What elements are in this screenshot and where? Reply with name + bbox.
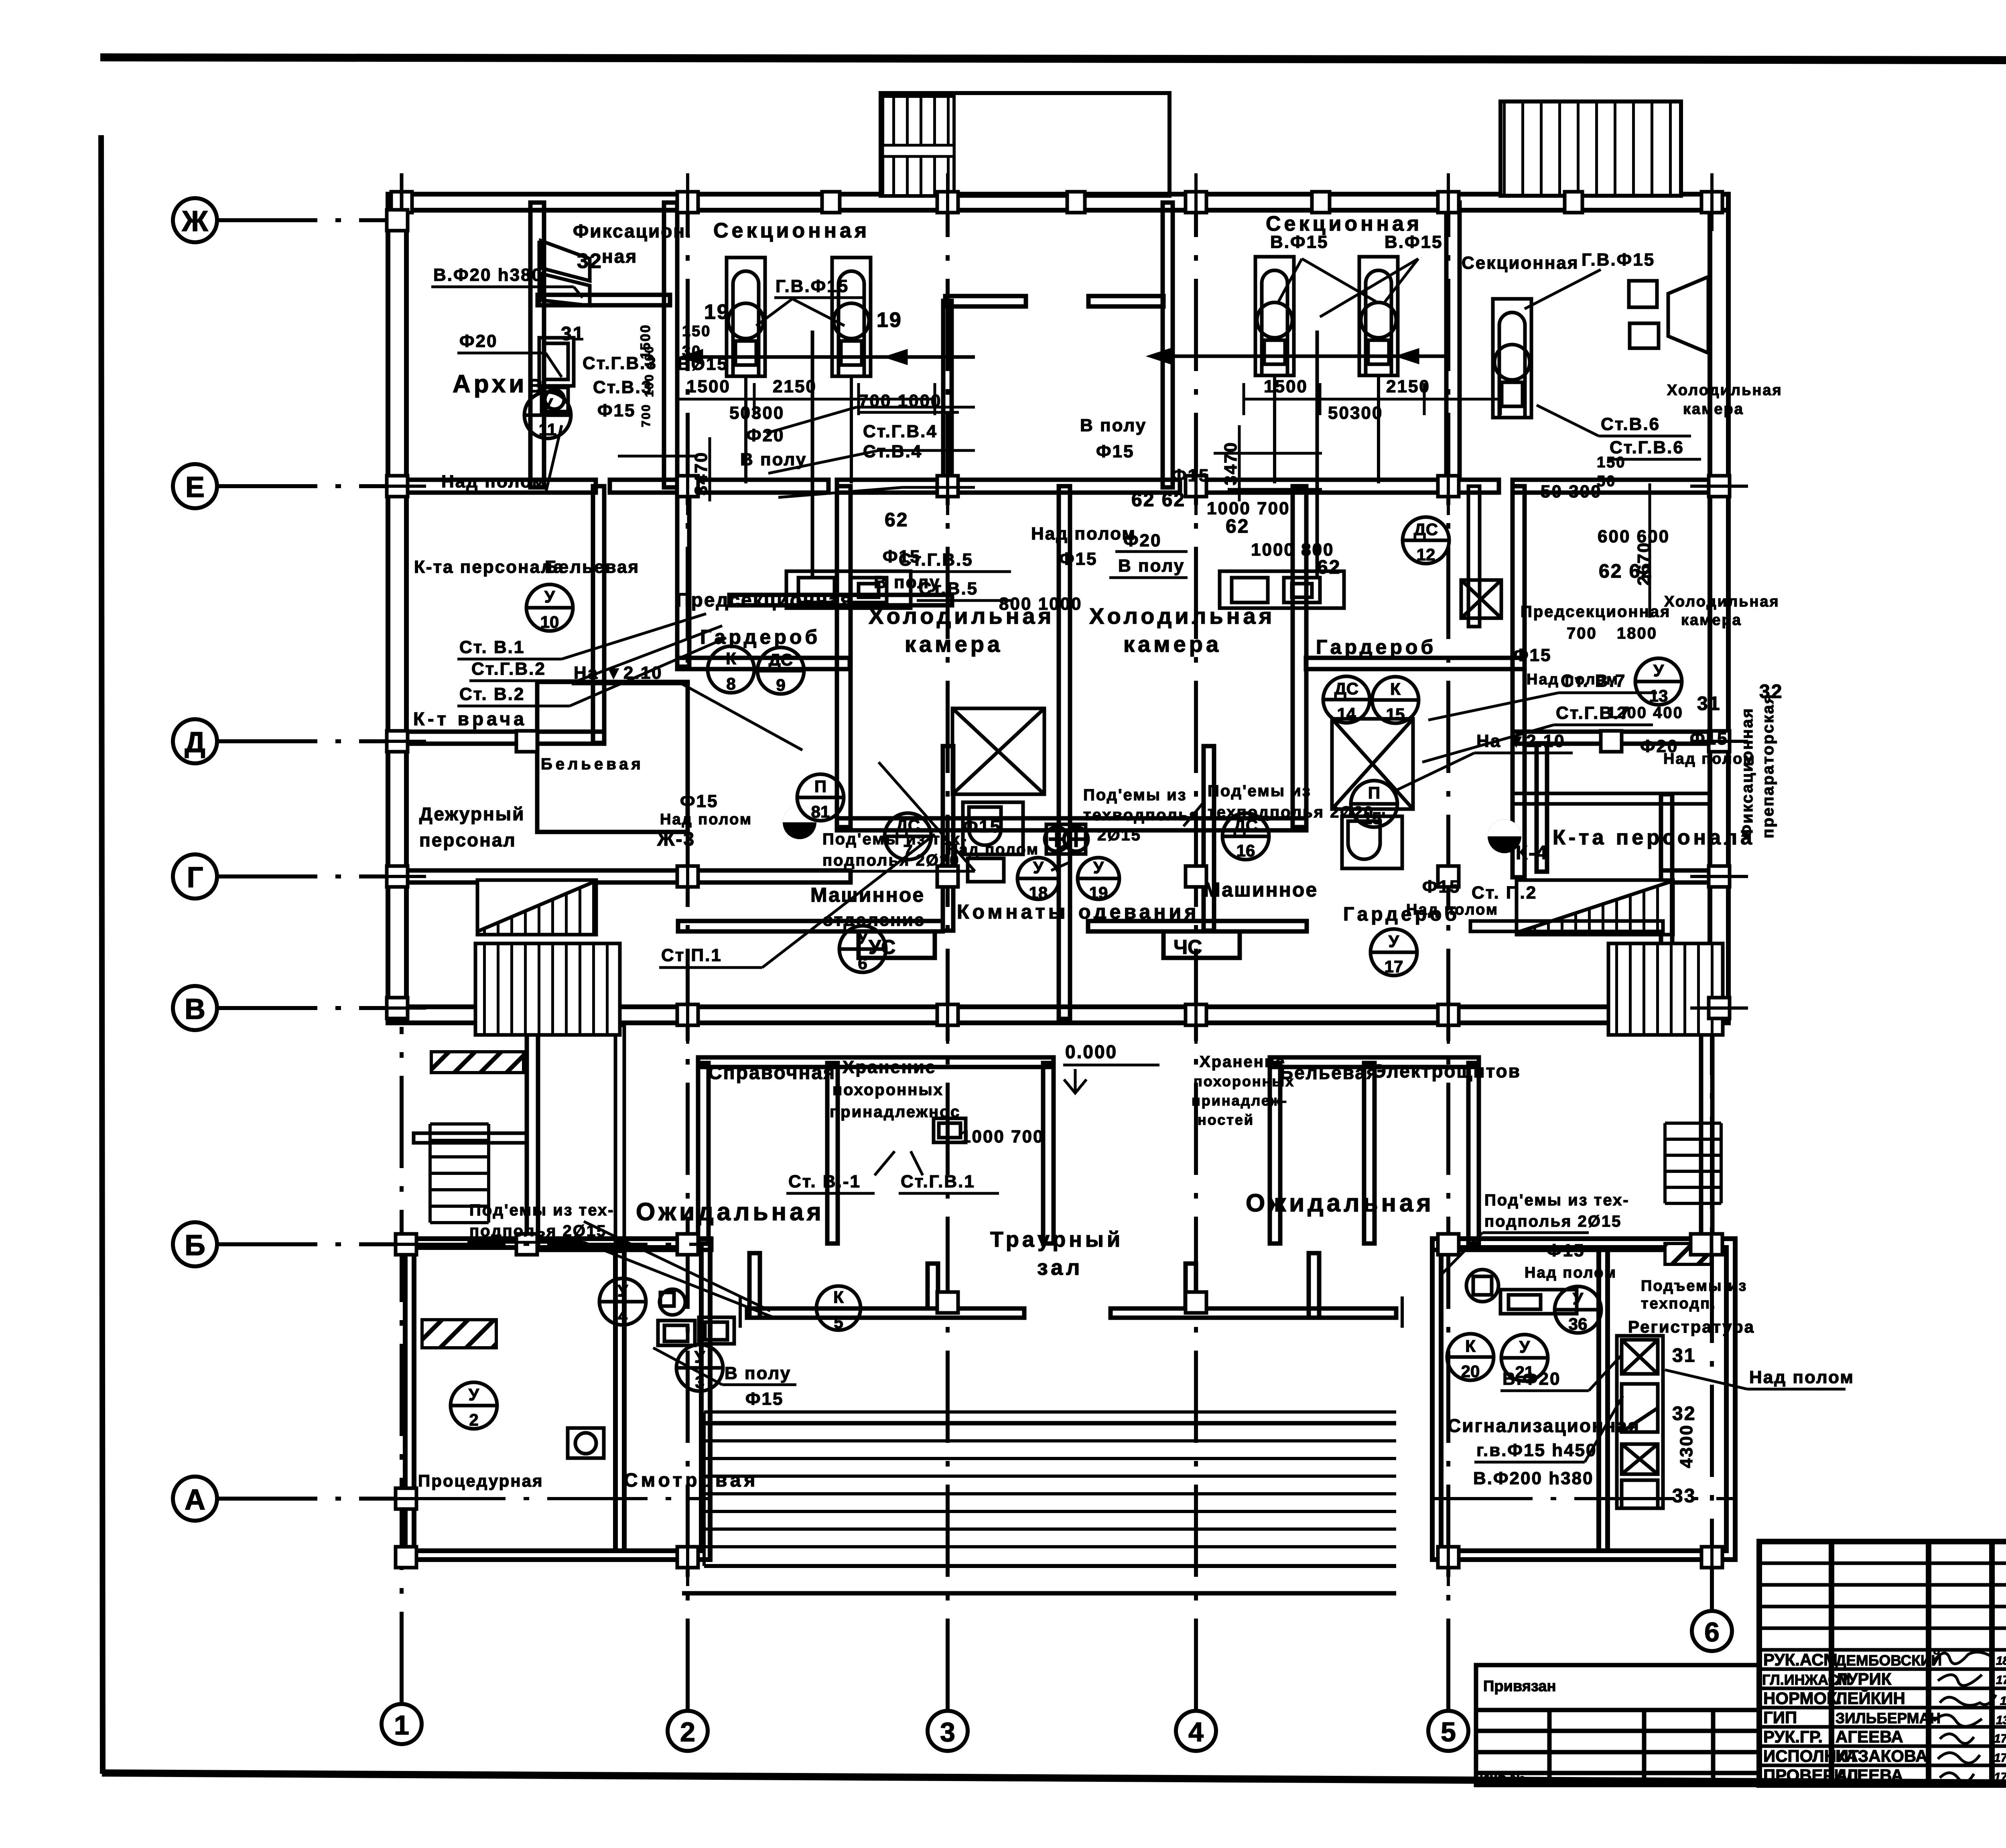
svg-text:К-та персонала: К-та персонала: [1553, 826, 1755, 849]
section table T5: [1493, 299, 1531, 418]
wall: axis Д row left: [399, 732, 604, 744]
svg-text:Комнаты: Комнаты: [957, 901, 1069, 923]
svg-text:У: У: [1653, 661, 1664, 680]
axis 3: [928, 201, 968, 1751]
svg-text:1000 700: 1000 700: [961, 1127, 1044, 1146]
svg-text:техподполья 2Ø20: техподполья 2Ø20: [1208, 803, 1374, 821]
svg-text:800 1000: 800 1000: [999, 594, 1082, 614]
svg-text:персонал: персонал: [419, 830, 516, 850]
svg-text:50: 50: [1597, 473, 1616, 490]
wall: axis Б row east: [1432, 1239, 1713, 1250]
svg-text:У: У: [542, 395, 553, 414]
svg-text:У: У: [1389, 932, 1399, 951]
svg-text:ВØ15: ВØ15: [677, 354, 728, 374]
marker У/3: [676, 1345, 723, 1391]
stair left outdoor steps: [430, 1124, 489, 1223]
svg-text:г.в.Ф15 h450: г.в.Ф15 h450: [1476, 1440, 1597, 1460]
svg-text:Над полом: Над полом: [1525, 1264, 1617, 1281]
svg-text:Ф15: Ф15: [1059, 549, 1098, 569]
svg-text:Ф15: Ф15: [883, 547, 921, 566]
marker У/11: [524, 392, 571, 438]
svg-text:2Ø15: 2Ø15: [1097, 826, 1141, 844]
page border left: [101, 135, 103, 1774]
fixtures wing right top: [1466, 1270, 1577, 1314]
svg-text:ЛЕЙКИН: ЛЕЙКИН: [1835, 1688, 1905, 1708]
hatched strip below right stair: [1665, 1243, 1711, 1264]
svg-text:Гардероб: Гардероб: [700, 626, 820, 648]
svg-text:4: 4: [618, 1306, 627, 1325]
svg-text:В.Ф15: В.Ф15: [1270, 232, 1329, 252]
svg-text:Ст.В.6: Ст.В.6: [1601, 414, 1660, 434]
svg-text:13: 13: [1649, 686, 1668, 705]
wall: Фиксационная bottom: [538, 295, 670, 305]
svg-text:Под'емы из: Под'емы из: [1208, 782, 1312, 800]
svg-text:Ф15: Ф15: [597, 401, 636, 420]
marker К/15: [1372, 677, 1419, 723]
svg-text:Г: Г: [187, 862, 203, 894]
axis Г: [173, 854, 399, 899]
svg-text:В полу: В полу: [725, 1363, 791, 1383]
wall: top of lower rooms left: [698, 1057, 1054, 1067]
svg-text:одевания: одевания: [1078, 901, 1199, 923]
marker У/13: [1635, 658, 1682, 705]
svg-text:Е: Е: [185, 471, 205, 503]
svg-text:Над полом: Над полом: [1031, 524, 1136, 544]
svg-text:1000 700: 1000 700: [1207, 499, 1290, 518]
svg-text:Над полом: Над полом: [1406, 901, 1498, 918]
svg-text:17.07.80: 17.07.80: [1994, 1751, 2006, 1765]
marker ДС/9: [757, 647, 804, 694]
svg-text:подполья 2Ø15: подполья 2Ø15: [469, 1222, 607, 1240]
svg-text:Под'емы из тех-: Под'емы из тех-: [469, 1201, 615, 1219]
svg-text:150: 150: [682, 323, 711, 340]
marker У/18: [1017, 858, 1059, 899]
svg-text:4300: 4300: [1677, 1424, 1696, 1468]
wall: Холодильная камера bottom: [837, 818, 1306, 830]
stair right outdoor steps: [1665, 1123, 1721, 1203]
dimension lines top left secционная: [664, 309, 1650, 618]
svg-text:2: 2: [469, 1410, 478, 1429]
svg-text:2: 2: [680, 1717, 695, 1747]
marker У/6: [839, 926, 886, 972]
svg-text:1000 800: 1000 800: [1251, 540, 1334, 560]
svg-text:31: 31: [1697, 693, 1721, 714]
marker У/21: [1501, 1335, 1548, 1381]
top protrusion right (shaft): [1500, 101, 1681, 196]
pipe riser right: [1316, 331, 1319, 578]
svg-text:Холодильная: Холодильная: [1667, 382, 1783, 399]
svg-text:РУК.ГР.: РУК.ГР.: [1763, 1727, 1823, 1746]
svg-text:похоронных: похоронных: [832, 1081, 944, 1099]
svg-text:Над полом: Над полом: [1749, 1367, 1854, 1387]
svg-text:31: 31: [1672, 1345, 1696, 1366]
svg-text:6: 6: [858, 954, 867, 973]
wall: axis Г row left: [399, 870, 851, 882]
axis 6: [1692, 1027, 1732, 1651]
svg-text:62: 62: [1226, 516, 1249, 537]
svg-text:1800: 1800: [1617, 625, 1657, 642]
svg-text:РУК.АСМ: РУК.АСМ: [1763, 1650, 1837, 1669]
svg-text:У: У: [469, 1385, 479, 1404]
wall: top of lower rooms right: [1270, 1057, 1479, 1067]
X-box near center right: [1461, 580, 1501, 618]
svg-text:У: У: [1093, 858, 1104, 877]
svg-text:В.Ф20 h380: В.Ф20 h380: [433, 265, 543, 285]
fixture cluster left of center: [786, 571, 911, 608]
svg-text:62: 62: [1317, 557, 1341, 578]
svg-text:Привязан: Привязан: [1483, 1678, 1556, 1695]
svg-text:ГИП: ГИП: [1763, 1708, 1797, 1727]
pipe riser left: [811, 331, 814, 578]
fixation funnel right: [1629, 277, 1710, 353]
svg-text:62: 62: [885, 509, 908, 531]
svg-text:20: 20: [1461, 1362, 1480, 1381]
wall: Холодильная камера right wall: [1293, 486, 1306, 827]
svg-text:31: 31: [561, 323, 585, 345]
УС box right: [1163, 931, 1240, 958]
wall: Предсекционная divider left: [729, 595, 952, 605]
svg-text:Г.В.Ф15: Г.В.Ф15: [776, 276, 849, 296]
svg-text:Ф15: Ф15: [1513, 645, 1552, 665]
svg-text:3470: 3470: [691, 451, 711, 495]
svg-text:81: 81: [811, 802, 830, 821]
svg-text:Холодильная: Холодильная: [1089, 603, 1275, 629]
ticks top wall: [391, 173, 412, 231]
svg-text:18.07: 18.07: [1996, 1654, 2006, 1667]
wall: central spine: [1059, 486, 1070, 1019]
wall: axis Г row right: [1661, 870, 1728, 882]
stair right upper flight: [1517, 880, 1673, 935]
svg-text:ная: ная: [602, 246, 638, 267]
svg-text:17.06.80: 17.06.80: [1994, 1732, 2006, 1745]
marker У/4: [599, 1278, 646, 1325]
svg-text:700: 700: [1567, 625, 1597, 642]
axis 4: [1176, 201, 1216, 1751]
title block dates: [1994, 1654, 2006, 1784]
svg-text:Дежурный: Дежурный: [419, 803, 525, 824]
svg-text:Секционная: Секционная: [713, 219, 870, 242]
stair left lower flight: [475, 943, 620, 1035]
svg-text:К-4: К-4: [1516, 842, 1548, 864]
marker У/36: [1555, 1286, 1601, 1333]
marker У/19: [1078, 858, 1119, 899]
svg-text:5: 5: [1441, 1717, 1456, 1747]
svg-text:техподп.: техподп.: [1641, 1295, 1716, 1312]
wall: lower block east: [1701, 1023, 1712, 1248]
fixtures wing left (Смотровая): [568, 1289, 734, 1458]
svg-text:Ст.Г.В.1: Ст.Г.В.1: [901, 1172, 975, 1191]
svg-text:Машинное: Машинное: [1204, 878, 1318, 901]
svg-text:У: У: [1573, 1289, 1584, 1308]
wall: right Секционная east: [1446, 203, 1460, 479]
axis 2: [668, 201, 708, 1751]
wall: axis Д row right: [1513, 732, 1710, 744]
svg-text:ДС: ДС: [1414, 520, 1438, 539]
wall: СУ right east: [1537, 743, 1547, 872]
svg-text:Предсекционная: Предсекционная: [676, 590, 853, 611]
wall: right exterior: [1710, 194, 1728, 1021]
svg-text:У: У: [617, 1281, 628, 1300]
svg-text:ностей: ностей: [1198, 1112, 1254, 1128]
svg-text:Ф15: Ф15: [1547, 1241, 1585, 1260]
wall: К-та персонала right west: [1661, 794, 1672, 1021]
svg-text:50300: 50300: [729, 403, 784, 423]
section table T4: [1359, 257, 1398, 483]
svg-text:Под'емы из: Под'емы из: [1083, 786, 1187, 804]
wall: К-та персонала/Бельевая east: [593, 486, 604, 743]
fixation funnel left: [539, 241, 590, 306]
cabinet column wing right: [1617, 1336, 1663, 1508]
axis А: [173, 1477, 405, 1521]
wall: axis B bottom of main band: [388, 1007, 1728, 1023]
svg-text:15: 15: [1386, 705, 1405, 724]
svg-text:Регистратура: Регистратура: [1628, 1317, 1755, 1336]
svg-text:Ст П.1: Ст П.1: [661, 945, 722, 965]
leader underlines: [431, 259, 1846, 1462]
svg-text:Под'емы из тех-: Под'емы из тех-: [1484, 1191, 1630, 1209]
svg-text:Ф15: Ф15: [1096, 442, 1135, 461]
svg-text:камера: камера: [1683, 401, 1744, 418]
svg-text:ЧС: ЧС: [1174, 936, 1202, 958]
svg-text:ДЕМБОВСКИЙ: ДЕМБОВСКИЙ: [1835, 1652, 1942, 1669]
svg-text:Ф15: Ф15: [1422, 877, 1461, 897]
svg-text:36: 36: [1569, 1314, 1588, 1333]
wall: lower block west upper edge: [414, 1133, 527, 1143]
svg-text:1200 400: 1200 400: [1607, 704, 1683, 722]
svg-text:3470: 3470: [1221, 441, 1241, 485]
terrace edge arrows: [739, 1296, 742, 1328]
svg-text:Ст. В.1: Ст. В.1: [459, 637, 525, 657]
svg-text:19: 19: [877, 308, 902, 332]
ticks axis B row: [677, 1004, 698, 1025]
wall: Справочная west: [698, 1063, 709, 1243]
ticks wings: [396, 1234, 416, 1255]
svg-text:3: 3: [940, 1717, 955, 1747]
ticks right wall: [1709, 476, 1730, 497]
marker ДС/12: [1403, 517, 1449, 564]
section table T1: [727, 258, 765, 483]
marker У/10: [526, 584, 573, 631]
wall: Архив east: [530, 203, 544, 487]
wall: Фиксационная east / Секционная west: [664, 203, 677, 487]
svg-text:Фиксационная: Фиксационная: [1738, 707, 1756, 838]
svg-text:Ж-3: Ж-3: [657, 829, 695, 850]
hatch in left protrusion: [883, 96, 954, 196]
svg-text:Ф15: Ф15: [680, 791, 719, 811]
vestibule walls below protrusion: [943, 301, 952, 486]
fixture on Справочная wall: [934, 1118, 966, 1142]
svg-text:П: П: [1368, 783, 1380, 802]
svg-text:5: 5: [834, 1313, 843, 1332]
wing right: divider Сигнализационная|Регистратура: [1599, 1248, 1608, 1551]
svg-text:Б: Б: [185, 1229, 205, 1262]
wall: central divider top: [1163, 203, 1173, 487]
hatched block wing left top: [422, 1320, 496, 1348]
attachment table: [1476, 1665, 1759, 1785]
marker ДС/7: [885, 813, 931, 860]
svg-text:подполья 2Ø15: подполья 2Ø15: [1484, 1213, 1622, 1230]
svg-text:Над полом: Над полом: [441, 472, 546, 491]
svg-text:62 62: 62 62: [1131, 489, 1186, 511]
wall: Смотровая divider upper part: [615, 1025, 624, 1242]
svg-text:Бельевая: Бельевая: [545, 557, 640, 577]
svg-text:10: 10: [540, 613, 559, 631]
svg-text:техводполья: техводполья: [1083, 806, 1200, 824]
sink block Архив: [539, 338, 574, 412]
svg-text:700: 700: [640, 404, 653, 427]
pipe main left with arrows: [684, 351, 975, 363]
svg-text:У: У: [694, 1347, 705, 1366]
svg-text:19: 19: [1089, 883, 1108, 902]
title block signature row lines: [1759, 1563, 2006, 1765]
svg-text:0.000: 0.000: [1065, 1041, 1117, 1062]
stair left upper flight: [477, 880, 596, 935]
svg-text:препараторская: препараторская: [1759, 693, 1777, 838]
axis Ж: [173, 198, 399, 242]
svg-text:Г.В.Ф15: Г.В.Ф15: [1582, 250, 1655, 270]
svg-text:Гардероб: Гардероб: [1316, 636, 1436, 658]
svg-text:Фиксацион.: Фиксацион.: [573, 221, 692, 241]
wall: Бельевая центр west: [1270, 1063, 1280, 1243]
Траурный зал south wall right: [1111, 1308, 1396, 1318]
marker П/81: [797, 774, 844, 821]
svg-text:АГЕЕВА: АГЕЕВА: [1835, 1766, 1903, 1785]
wall: Машинное отделение bottom left: [678, 921, 943, 931]
svg-text:камера: камера: [905, 631, 1003, 657]
svg-text:В полу: В полу: [1118, 556, 1185, 576]
svg-text:К: К: [1465, 1337, 1476, 1355]
svg-text:50300: 50300: [1328, 403, 1383, 423]
Траурный зал south wall left: [747, 1308, 1024, 1318]
wall: Машинное отделение east right: [1204, 746, 1214, 931]
svg-text:33: 33: [1672, 1485, 1696, 1507]
marker К/5: [816, 1286, 861, 1330]
wall: Машинное отделение west left: [943, 746, 953, 931]
marker К/20: [1447, 1334, 1494, 1380]
svg-text:В.Ф200 h380: В.Ф200 h380: [1473, 1469, 1594, 1488]
ticks Д row interior: [516, 731, 537, 752]
svg-text:Траурный: Траурный: [990, 1227, 1123, 1252]
svg-text:АГЕЕВА: АГЕЕВА: [1835, 1727, 1903, 1746]
toilet dot center-right: [1488, 820, 1521, 853]
svg-text:Д: Д: [185, 726, 205, 759]
svg-text:Ст. П.2: Ст. П.2: [1472, 883, 1537, 903]
svg-text:ЛУРИК: ЛУРИК: [1835, 1669, 1892, 1688]
wing right outline: [1432, 1239, 1735, 1560]
section table T3: [1255, 257, 1294, 483]
level mark squares: [1045, 824, 1088, 854]
svg-text:Холодильная: Холодильная: [1664, 593, 1780, 610]
svg-text:П: П: [814, 777, 826, 796]
svg-text:ЗИЛЬБЕРМАН: ЗИЛЬБЕРМАН: [1835, 1710, 1941, 1726]
svg-text:Ф15: Ф15: [963, 817, 1001, 836]
svg-text:К: К: [726, 649, 736, 668]
wall: Холодильная камера left wall: [837, 486, 851, 827]
svg-text:Секционная: Секционная: [1462, 253, 1579, 273]
marker ДС/16: [1222, 813, 1269, 860]
svg-text:Над полом: Над полом: [1663, 751, 1756, 767]
axis 1: [382, 1027, 422, 1744]
svg-text:У: У: [544, 587, 555, 606]
svg-text:Архив: Архив: [453, 370, 546, 398]
page border top: [100, 57, 2006, 61]
svg-text:В полу: В полу: [874, 572, 940, 592]
marker П/15': [1351, 781, 1397, 827]
svg-text:В.Ф20: В.Ф20: [1502, 1369, 1561, 1389]
marker У/2: [451, 1382, 497, 1429]
svg-text:1500: 1500: [686, 377, 731, 396]
svg-text:В: В: [185, 993, 205, 1025]
title block frame: [1759, 1542, 2006, 1785]
wing left: divider Процедурная|Смотровая: [615, 1251, 624, 1551]
toilet dot center-left: [783, 805, 816, 839]
svg-text:Ж: Ж: [181, 205, 208, 237]
svg-text:Ст.Г.В.6: Ст.Г.В.6: [1610, 438, 1684, 457]
svg-text:Смотровая: Смотровая: [624, 1470, 758, 1491]
marker У/17: [1370, 929, 1417, 976]
svg-text:32: 32: [577, 250, 603, 273]
svg-text:100 400: 100 400: [643, 345, 656, 397]
svg-text:Справочная: Справочная: [708, 1062, 836, 1083]
svg-text:Ф15: Ф15: [1172, 466, 1210, 485]
svg-text:16: 16: [1236, 841, 1255, 860]
svg-text:принадлеж-: принадлеж-: [1192, 1092, 1288, 1109]
wall: Справочная east: [827, 1063, 838, 1243]
svg-text:50 300: 50 300: [1541, 482, 1602, 501]
wall: Машинное отделение bottom right: [1088, 921, 1307, 931]
svg-text:17: 17: [1385, 957, 1403, 976]
axis Е: [173, 464, 399, 508]
svg-text:14: 14: [1337, 704, 1356, 723]
ticks top wall half-axis: [822, 192, 840, 213]
axis В: [173, 986, 399, 1030]
svg-text:Ст.Г.В.2: Ст.Г.В.2: [471, 659, 546, 679]
svg-text:К: К: [833, 1288, 844, 1306]
wing left outline: [405, 1239, 710, 1560]
section table T2: [832, 258, 871, 483]
svg-text:Ст. В.2: Ст. В.2: [459, 684, 525, 704]
marker ДС/14: [1323, 676, 1370, 723]
svg-text:Процедурная: Процедурная: [418, 1471, 544, 1490]
svg-text:1: 1: [394, 1710, 409, 1740]
svg-text:12: 12: [1417, 545, 1435, 564]
svg-text:У: У: [1033, 858, 1044, 877]
wall: axis Б row west: [527, 1239, 711, 1250]
extra walls right block: [1468, 486, 1710, 931]
marker К/8: [708, 646, 754, 693]
svg-text:1500: 1500: [1264, 377, 1308, 396]
svg-text:Подъемы из: Подъемы из: [1641, 1278, 1747, 1294]
svg-text:ДС: ДС: [1334, 679, 1358, 698]
svg-text:Предсекционная: Предсекционная: [1521, 603, 1671, 621]
svg-text:камера: камера: [1123, 631, 1222, 657]
svg-text:Ст. В.-1: Ст. В.-1: [788, 1172, 861, 1191]
svg-text:19: 19: [704, 300, 730, 324]
stub walls Траурный зал: [749, 1253, 760, 1318]
ticks Г row interior: [677, 866, 698, 887]
svg-text:В полу: В полу: [1080, 416, 1147, 435]
svg-text:зал: зал: [1037, 1256, 1083, 1280]
extend axis Б and А dash lines through left wing: [405, 1244, 1735, 1499]
svg-text:Ст. В.7: Ст. В.7: [1561, 671, 1626, 691]
svg-text:13.08: 13.08: [1996, 1714, 2006, 1727]
svg-text:32: 32: [1759, 681, 1783, 702]
svg-text:17.07: 17.07: [2000, 1694, 2006, 1708]
ticks Б row middle: [937, 1292, 958, 1313]
svg-text:Над полом: Над полом: [660, 811, 752, 828]
wall: left exterior: [388, 194, 406, 1021]
svg-text:У: У: [1519, 1337, 1530, 1356]
